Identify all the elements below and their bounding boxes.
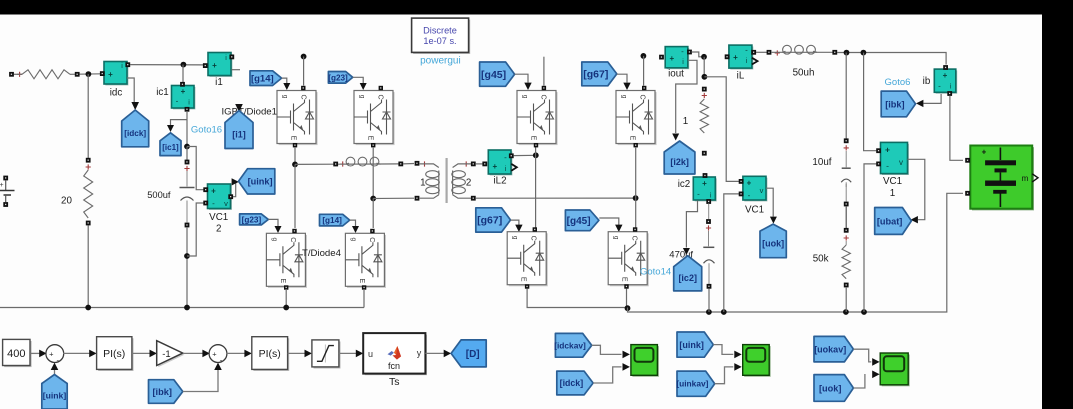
svg-text:[g67]: [g67]	[477, 215, 502, 227]
goto tag [ibk] (Goto6)	[881, 91, 915, 117]
from tag [g14] bottom	[320, 214, 350, 226]
svg-text:VC1: VC1	[883, 176, 902, 187]
svg-text:+: +	[0, 182, 4, 189]
svg-text:Ts: Ts	[389, 376, 400, 388]
current measurement iL2	[490, 151, 513, 175]
wire sum2 to PI2	[226, 352, 245, 354]
wire PI1 to gain	[132, 352, 150, 354]
wire iL2 to node G	[514, 154, 536, 156]
capacitor 470uf	[708, 204, 710, 220]
svg-text:[g23]: [g23]	[242, 215, 262, 224]
svg-text:[ubat]: [ubat]	[877, 216, 903, 226]
IGBT/Diode block U7 (output bridge bottom-left)	[507, 232, 548, 287]
wire IGBT4 emitter to bus	[363, 289, 365, 308]
wire fcn to goto D	[425, 352, 444, 354]
wire ibk to sum2	[183, 369, 218, 392]
svg-text:PI(s): PI(s)	[259, 348, 281, 360]
bus junction dots right	[706, 309, 712, 315]
wire uink to sum1	[54, 369, 56, 375]
sum junction S2	[209, 345, 227, 363]
current measurement iout	[667, 48, 690, 69]
wire VC1 mid output to goto uok	[766, 188, 773, 216]
wire PI2 to saturation	[288, 352, 306, 354]
wire node B down to ic1	[182, 65, 184, 84]
svg-text:[uok]: [uok]	[819, 383, 841, 393]
wire g14 to IGBT1 gate	[282, 78, 287, 83]
IGBT/Diode block U1 (input bridge top-left)	[277, 91, 318, 146]
node H junction (leg D midpoint)	[633, 195, 639, 201]
svg-text:+: +	[181, 87, 186, 96]
arrow into goto i1	[235, 104, 243, 112]
wire 50k to bus	[845, 287, 847, 312]
wire sum1 to PI1	[63, 352, 90, 354]
svg-text:400: 400	[7, 348, 25, 360]
svg-text:[i1]: [i1]	[232, 130, 246, 140]
resistor R_in (input series resistor)	[9, 72, 14, 77]
goto tag [i1]	[225, 111, 253, 149]
ground bus left (input side)	[0, 307, 364, 309]
svg-text:[g14]: [g14]	[322, 216, 342, 225]
svg-text:[D]: [D]	[466, 349, 480, 360]
svg-text:+: +	[669, 54, 674, 63]
svg-text:-: -	[697, 190, 700, 199]
svg-text:-: -	[745, 46, 748, 55]
goto tag [uok]	[760, 224, 786, 258]
wire idckav to scope1	[592, 345, 622, 354]
svg-text:ic1: ic1	[156, 87, 169, 98]
wire idck to scope1	[593, 367, 621, 383]
letterbox right band	[1042, 0, 1073, 409]
svg-text:+: +	[49, 350, 54, 359]
wire iout output to node J	[692, 52, 705, 57]
svg-text:Goto16: Goto16	[191, 125, 222, 136]
svg-text:-: -	[681, 47, 684, 56]
wire secondary minus to leg D	[476, 197, 636, 199]
wire g23 to IGBT2 gate	[353, 77, 364, 83]
svg-text:-: -	[504, 153, 507, 162]
node D junction above IGBT1	[301, 54, 307, 60]
wire resistor 20 to ground bus	[87, 226, 89, 308]
wire 50uh to battery via ib	[837, 53, 946, 65]
current measurement ib	[936, 71, 958, 94]
wire g14 to IGBT4 gate	[350, 220, 356, 226]
svg-text:+: +	[211, 187, 216, 196]
node J junction	[701, 54, 707, 60]
from tag [g67] top	[582, 62, 617, 86]
series inductor (leg A to transformer)	[295, 163, 334, 165]
svg-text:+: +	[733, 53, 738, 62]
wire VC1 2 output to goto uink	[233, 182, 236, 197]
transformer secondary winding	[464, 161, 469, 166]
svg-text:-: -	[938, 82, 941, 91]
svg-text:Goto6: Goto6	[885, 77, 911, 88]
battery block	[972, 147, 1034, 210]
wire ib to battery plus	[950, 96, 963, 161]
goto tag [ic2]	[674, 256, 702, 291]
svg-text:y: y	[417, 348, 422, 358]
svg-text:+: +	[212, 350, 217, 359]
svg-text:+: +	[492, 162, 497, 171]
from tag [g14] top	[250, 71, 282, 86]
resistor 50k	[845, 184, 847, 202]
wire uokav to scope3	[853, 349, 871, 362]
svg-text:10uf: 10uf	[812, 157, 831, 168]
svg-text:iL: iL	[737, 71, 745, 82]
svg-text:[uinkav]: [uinkav]	[676, 379, 708, 389]
svg-text:+: +	[943, 71, 948, 80]
svg-text:[idckav]: [idckav]	[554, 340, 586, 350]
wire iL to 50uh inductor	[756, 51, 767, 53]
svg-text:50uh: 50uh	[793, 68, 815, 79]
svg-text:[ic1]: [ic1]	[162, 143, 179, 152]
wire 470uf to bus	[708, 289, 710, 313]
svg-text:v: v	[760, 186, 764, 195]
node I junction above IGBT6	[641, 53, 647, 59]
node F junction (leg B midpoint)	[370, 196, 376, 202]
node G junction (leg C midpoint)	[533, 152, 539, 158]
svg-text:u: u	[368, 349, 373, 359]
from tag [g23] top	[328, 72, 352, 84]
wire idc to node B	[130, 64, 204, 66]
from tag [g23] bottom	[240, 214, 269, 225]
svg-text:+: +	[108, 70, 113, 79]
svg-text:[ibk]: [ibk]	[152, 387, 171, 397]
svg-text:ic2: ic2	[678, 179, 691, 190]
sum junction S1	[46, 345, 64, 363]
wire node E down to IGBT3 collector	[294, 164, 296, 228]
from tag [uok] scope	[814, 375, 853, 402]
from tag [g45] top	[480, 62, 515, 86]
svg-text:iL2: iL2	[493, 176, 506, 187]
node M junction	[861, 50, 867, 56]
scope 1	[632, 346, 659, 377]
current measurement ic1	[173, 87, 196, 110]
gain -1	[158, 342, 184, 367]
current measurement ic2	[695, 178, 717, 201]
svg-text:iout: iout	[668, 69, 684, 80]
wire idc signal to goto idck	[127, 78, 134, 104]
svg-text:50k: 50k	[813, 254, 829, 265]
svg-text:+: +	[982, 148, 987, 157]
svg-text:500uf: 500uf	[147, 190, 171, 200]
svg-text:v: v	[899, 158, 903, 167]
voltage measurement VC1 mid	[744, 178, 767, 202]
goto tag [i2k]	[664, 141, 695, 174]
goto tag [ubat]	[875, 208, 912, 235]
svg-text:[ibk]: [ibk]	[885, 99, 904, 109]
IGBT/Diode block U6 (output bridge top-right)	[616, 91, 657, 146]
wire node D to IGBT1 collector	[303, 57, 305, 86]
saturation block	[314, 342, 341, 369]
wire leg C vertical	[535, 147, 537, 228]
from tag [g45] bottom	[565, 210, 599, 231]
wire VC1 1 output to goto ubat	[908, 159, 925, 219]
goto tag [ic1]	[160, 133, 181, 156]
wire node I to IGBT6 collector	[643, 56, 645, 86]
svg-text:[uink]: [uink]	[43, 390, 67, 400]
svg-text:m: m	[1022, 174, 1029, 183]
svg-text:-: -	[886, 161, 889, 171]
svg-text:[uokav]: [uokav]	[814, 344, 846, 354]
from tag [idckav]	[555, 333, 591, 357]
svg-text:fcn: fcn	[388, 361, 400, 371]
wire gain to sum2	[183, 352, 203, 354]
svg-text:[uink]: [uink]	[679, 340, 704, 350]
wire uinkav to scope2	[715, 367, 734, 384]
from tag [uink] control	[42, 375, 67, 409]
svg-text:1: 1	[890, 188, 895, 199]
node K junction	[702, 74, 708, 80]
svg-text:PI(s): PI(s)	[103, 348, 125, 360]
wire ic2 signal to goto ic2tag	[686, 201, 697, 248]
svg-text:i1: i1	[215, 77, 223, 88]
svg-text:[g14]: [g14]	[251, 74, 274, 85]
powergui block	[413, 20, 470, 54]
wire IGBT6 emitter through node H to IGBT8	[635, 147, 637, 228]
svg-text:-: -	[212, 199, 215, 208]
svg-text:-: -	[176, 97, 179, 106]
node L junction	[844, 50, 850, 56]
wire g23 to IGBT3 gate	[268, 219, 278, 226]
resistor 1 (output damping)	[702, 87, 707, 92]
wire 400 to sum1	[30, 352, 40, 354]
bus junction dots	[85, 305, 91, 311]
wire node C to VC1 2 plus input	[187, 147, 204, 190]
svg-text:-: -	[748, 191, 751, 200]
svg-text:ib: ib	[923, 76, 931, 87]
wire secondary to iL2	[476, 163, 483, 165]
from tag [g67] bottom	[476, 208, 511, 232]
svg-text:20: 20	[61, 196, 72, 207]
resistor 20 (input shunt)	[86, 158, 91, 163]
wire IGBT3 emitter to bus	[285, 289, 287, 308]
svg-text:+: +	[212, 61, 217, 70]
svg-text:[g23]: [g23]	[328, 73, 348, 82]
svg-text:+: +	[702, 179, 707, 188]
node C junction above 500uf	[184, 144, 190, 150]
wire ic1 out down with branch to goto ic1	[186, 111, 188, 147]
goto tag [idck]	[122, 110, 149, 147]
from tag [ibk] control	[149, 380, 183, 404]
voltage measurement VC1 1	[882, 144, 909, 175]
voltage measurement VC1 2	[209, 185, 232, 210]
wire node A down to resistor 20	[87, 74, 89, 158]
wire g67 to IGBT6 gate	[617, 74, 627, 82]
wire bus to VC1 mid minus	[724, 194, 739, 312]
goto tag [uink]	[239, 169, 275, 194]
svg-text:[g45]: [g45]	[567, 216, 591, 227]
svg-text:+: +	[885, 145, 890, 155]
transformer primary winding	[422, 161, 427, 166]
svg-text:[idck]: [idck]	[124, 129, 146, 138]
node B junction	[181, 62, 187, 68]
svg-text:[g67]: [g67]	[583, 69, 608, 81]
wire ib signal to goto ibk	[924, 94, 942, 103]
wire saturation to fcn	[339, 352, 357, 354]
svg-text:idc: idc	[110, 88, 123, 99]
PI controller 1	[98, 338, 133, 371]
current measurement iL	[730, 47, 753, 70]
svg-text:VC1: VC1	[745, 205, 764, 216]
svg-text:[g45]: [g45]	[481, 69, 506, 81]
svg-text:v: v	[224, 199, 228, 208]
svg-text:Discrete: Discrete	[423, 26, 457, 36]
svg-text:powergui: powergui	[420, 56, 461, 67]
DC voltage source (left edge, cut off)	[3, 176, 8, 181]
wire IGBT1 emitter to node E	[294, 147, 296, 164]
ground bus right (output side)	[527, 289, 627, 308]
PI controller 2	[253, 338, 289, 371]
IGBT/Diode block U5 (output bridge top-left)	[517, 91, 558, 146]
wire bus to VC1 1 minus	[864, 164, 876, 312]
wire node J to node K	[703, 57, 705, 77]
MATLAB function block Ts	[365, 335, 427, 376]
capacitor 10uf	[845, 53, 847, 139]
svg-text:1: 1	[420, 178, 425, 189]
current measurement idc	[105, 63, 128, 86]
from tag [uokav]	[814, 336, 853, 362]
wire g45 to IGBT8 gate	[599, 218, 619, 225]
svg-text:VC1: VC1	[209, 212, 228, 223]
wire node K to VC1 mid plus	[704, 77, 739, 182]
IGBT/Diode block U8 (output bridge bottom-right)	[608, 232, 649, 287]
from tag [idck] scope	[557, 371, 593, 395]
wire uok to scope3	[853, 374, 865, 388]
wire node F to transformer primary minus	[373, 197, 414, 199]
svg-text:IGBT/Diode1: IGBT/Diode1	[222, 107, 277, 118]
from tag [uinkav]	[677, 371, 715, 396]
svg-text:-1: -1	[162, 349, 170, 360]
wire IGBT5 collector stub	[543, 57, 545, 86]
wire node M to VC1 1 plus	[864, 53, 877, 151]
wire 500uf to bus and VC1 2 minus input	[186, 227, 188, 308]
transformer core	[446, 158, 448, 203]
wire g45 to IGBT5 gate	[515, 74, 528, 82]
current measurement i1	[209, 54, 232, 77]
from tag [uink] scope	[677, 332, 713, 357]
letterbox top bar	[0, 0, 1073, 15]
svg-text:T/Diode4: T/Diode4	[302, 248, 342, 259]
wire iout signal to goto i2k	[676, 60, 697, 133]
node E junction (leg A midpoint)	[292, 162, 298, 168]
inductor 50uh	[783, 45, 792, 54]
svg-text:2: 2	[216, 224, 221, 235]
scope 3	[882, 355, 910, 387]
capacitor 500uf	[186, 147, 188, 161]
svg-text:[idck]: [idck]	[560, 378, 584, 388]
svg-text:1: 1	[683, 116, 688, 127]
svg-text:+: +	[747, 179, 752, 188]
scope 2	[744, 346, 771, 377]
goto tag [D]	[451, 340, 486, 367]
wire node F down to IGBT4 collector	[372, 199, 374, 229]
IGBT/Diode block U3 (input bridge bottom-left)	[266, 233, 307, 288]
wire IGBT2 emitter to node F	[372, 147, 374, 199]
svg-text:2: 2	[466, 178, 471, 189]
svg-text:1e-07 s.: 1e-07 s.	[423, 36, 456, 46]
svg-text:[uink]: [uink]	[248, 177, 273, 187]
svg-text:[uok]: [uok]	[762, 239, 784, 249]
svg-text:[ic2]: [ic2]	[678, 273, 697, 283]
IGBT/Diode block U2 (input bridge top-right)	[354, 91, 395, 146]
wire uink to scope2	[713, 345, 733, 355]
constant block 400	[4, 341, 31, 367]
svg-text:[i2k]: [i2k]	[670, 157, 689, 167]
IGBT/Diode block U4 (input bridge bottom-right)	[345, 233, 386, 288]
svg-text:Goto14: Goto14	[640, 267, 671, 278]
node A junction at input	[86, 71, 92, 77]
wire g67 to IGBT7 gate	[511, 220, 519, 225]
